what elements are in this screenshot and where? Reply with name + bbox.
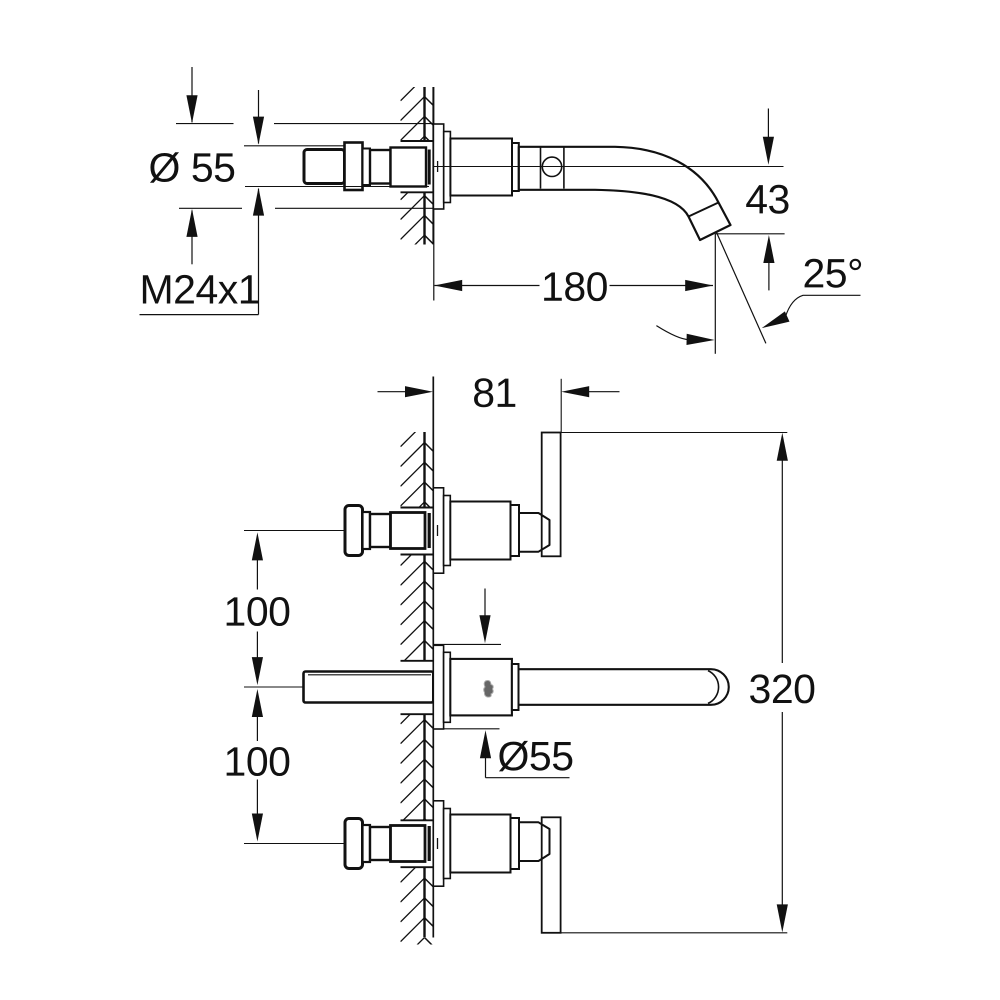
front view spout: escutcheon flange bbox=[433, 645, 443, 729]
top view: set screw circle bbox=[542, 157, 561, 176]
top view: collar ring bbox=[345, 143, 363, 191]
dimension 81: left arrow bbox=[378, 391, 407, 393]
svg-text:81: 81 bbox=[472, 370, 517, 416]
dimension diam 55 (top): lower extension line bbox=[179, 207, 242, 209]
dimension 25deg: arc with arrow bbox=[656, 326, 689, 340]
dimension M24x1: lower arrow and leader bbox=[258, 189, 260, 315]
front view spout: GROHE logo emboss bbox=[484, 680, 494, 697]
svg-text:M24x1: M24x1 bbox=[139, 267, 260, 313]
svg-text:43: 43 bbox=[745, 176, 790, 222]
top view: concealed housing in wall bbox=[401, 140, 434, 142]
dimension 43: upper arrow bbox=[767, 109, 769, 138]
dimension diam 55 (top): lower arrow bbox=[191, 211, 193, 265]
dimension 25deg: leader with arrow bbox=[785, 295, 860, 317]
svg-text:100: 100 bbox=[224, 739, 291, 785]
top view: spout body bbox=[450, 139, 512, 196]
dimension 25deg: angled line bbox=[717, 233, 766, 344]
handle flange step bbox=[444, 809, 451, 879]
handle knob ring bbox=[363, 512, 371, 549]
dimension 81: right extension line bbox=[560, 379, 562, 433]
front view: wall inner line bbox=[423, 432, 425, 508]
dimension 43: lower reference line bbox=[715, 233, 784, 235]
handle lever plate bbox=[542, 817, 561, 933]
top view: neck bbox=[370, 150, 391, 184]
top view: wall face line bbox=[432, 87, 434, 245]
dimension M24x1: label shelf bbox=[140, 314, 259, 316]
dimension 180: right extension line / spout tip line bbox=[714, 234, 716, 354]
top view: spout tip cut line bbox=[689, 203, 719, 217]
handle thread band at wall bbox=[428, 513, 431, 548]
top view: small ring bbox=[363, 149, 371, 186]
dimension diam 55 (top): upper extension line bbox=[176, 123, 234, 125]
svg-text:320: 320 bbox=[749, 666, 816, 712]
top view: cylinder entering wall bbox=[391, 148, 427, 187]
top view: M24 threaded inlet nipple bbox=[304, 150, 345, 184]
front view: wall face line bbox=[432, 377, 434, 938]
top view: body end ring bbox=[512, 143, 519, 191]
top view: flange step ring bbox=[444, 132, 451, 203]
top view: tube joint lines bbox=[540, 147, 542, 188]
svg-text:Ø55: Ø55 bbox=[497, 733, 573, 779]
handle valve body bbox=[450, 502, 510, 560]
handle centerline extension bbox=[244, 843, 344, 845]
dimension 100 lower: arrows and label bbox=[252, 689, 263, 717]
handle end knob bbox=[345, 506, 363, 556]
handle body end ring bbox=[511, 818, 520, 869]
dimension diam 55 (top): upper arrow bbox=[191, 67, 193, 122]
handle body end ring bbox=[511, 505, 520, 556]
front view: concealed housings in wall bbox=[401, 507, 434, 509]
dimension diam 55 (front): lower arrow and leader bbox=[480, 730, 491, 758]
front view spout: tube bbox=[519, 668, 712, 670]
dimension 180: line and arrows bbox=[435, 285, 540, 287]
top view: dark thread band at wall bbox=[428, 150, 431, 185]
front view spout: flange step bbox=[444, 652, 451, 722]
handle thread band at wall bbox=[428, 826, 431, 861]
dimension 320: line, arrows and label bbox=[777, 433, 788, 461]
handle knob ring bbox=[363, 825, 371, 862]
dimension diam 55 (front): label shelf bbox=[486, 777, 570, 779]
dimension M24x1: upper extension line bbox=[244, 145, 344, 147]
dimension diam 55 (front): upper arrow bbox=[484, 589, 486, 617]
svg-text:25°: 25° bbox=[802, 250, 863, 296]
handle thread piece bbox=[391, 513, 426, 549]
dimension M24x1: upper arrow bbox=[258, 90, 260, 144]
front view spout: body end ring bbox=[512, 664, 519, 710]
handle centerline extension bbox=[244, 530, 344, 532]
dimension 320: bottom extension line bbox=[561, 932, 788, 934]
svg-text:100: 100 bbox=[224, 589, 291, 635]
handle valve body bbox=[450, 815, 510, 873]
dimension 320: top extension line bbox=[561, 432, 788, 434]
handle lever hub bbox=[519, 513, 550, 552]
handle neck bbox=[370, 827, 391, 860]
handle end knob bbox=[345, 819, 363, 869]
front view spout: centerline extension bbox=[244, 686, 304, 688]
dimension diam 55 (front): upper extension line bbox=[434, 643, 501, 645]
handle escutcheon flange bbox=[433, 488, 443, 573]
svg-text:180: 180 bbox=[541, 264, 608, 310]
dimension 81: right arrow bbox=[587, 391, 619, 393]
handle lever hub bbox=[519, 822, 550, 861]
dimension diam 55 (front): lower extension line bbox=[444, 728, 500, 730]
handle flange step bbox=[444, 496, 451, 566]
handle lever plate bbox=[542, 433, 561, 557]
top view: wall inner line bbox=[423, 87, 425, 141]
handle thread piece bbox=[391, 826, 426, 862]
handle escutcheon flange bbox=[433, 801, 443, 886]
front view spout: supply pipe behind wall bbox=[304, 672, 434, 703]
dimension M24x1: lower extension line bbox=[245, 186, 429, 188]
front view spout: body bbox=[450, 659, 512, 716]
dimension 43: lower arrow bbox=[768, 262, 770, 290]
svg-text:Ø 55: Ø 55 bbox=[149, 145, 236, 191]
top view: curved spout tube outline bbox=[519, 147, 731, 240]
top view: wall escutcheon flange bbox=[433, 124, 443, 209]
dimension 100 upper: arrows and label bbox=[252, 532, 263, 560]
handle neck bbox=[370, 514, 391, 547]
extension line of 180 dim at wall face bbox=[433, 245, 435, 301]
top view: centerline bbox=[434, 166, 784, 168]
